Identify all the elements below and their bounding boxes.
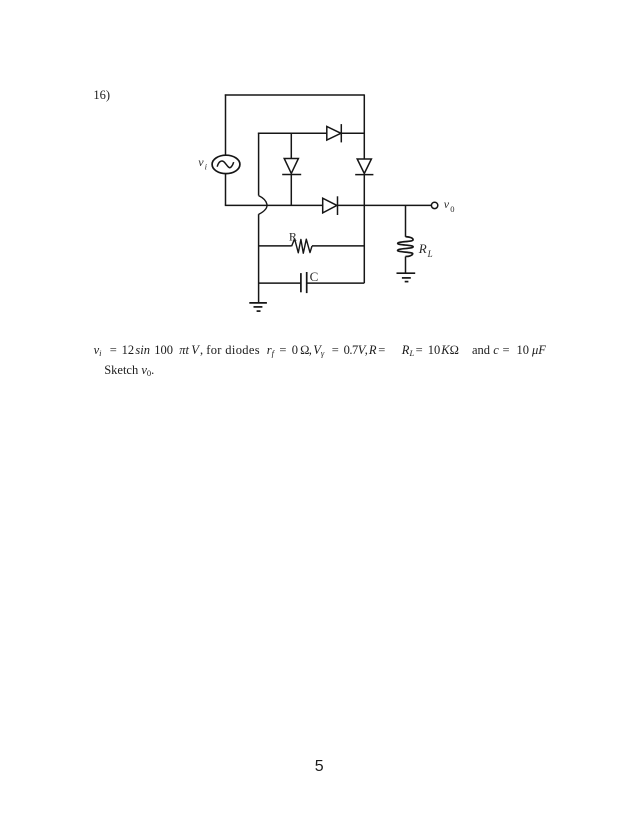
svg-text:i: i — [205, 162, 208, 172]
svg-text:R: R — [418, 241, 427, 256]
wire below D2 to bottom rail — [290, 175, 292, 206]
label RL — [418, 241, 433, 259]
svg-text:0: 0 — [450, 204, 454, 214]
wire right vertical lower (D3 through bottom rail to C rail) — [363, 175, 365, 284]
label v0 — [444, 197, 455, 214]
wire bottom rail left segment — [225, 204, 323, 206]
source vi (AC source ellipse with sine) — [212, 155, 240, 173]
page number — [312, 758, 327, 776]
output terminal circle — [431, 202, 437, 208]
ground below RL — [397, 273, 416, 281]
wire R rail left — [259, 245, 292, 247]
resistor R (zigzag) — [292, 239, 312, 253]
wire top rail — [225, 94, 364, 96]
wire branch vertical from second rail with hop over bottom rail — [259, 133, 267, 303]
equation line 1 — [0, 343, 638, 359]
svg-text:v: v — [444, 197, 450, 211]
wire left vertical lower (source to bottom rail) — [225, 174, 227, 206]
label R — [289, 229, 297, 243]
diode D4 on bottom rail (pointing right) — [323, 196, 338, 215]
wire right vertical upper (top rail to D3) — [363, 94, 365, 159]
svg-text:L: L — [427, 249, 433, 259]
resistor RL (scribble coil) — [398, 237, 414, 257]
wire RL branch vertical upper — [405, 205, 407, 236]
wire R rail right — [312, 245, 364, 247]
svg-text:v: v — [198, 155, 204, 169]
svg-text:R: R — [289, 229, 297, 243]
wire C rail right — [307, 282, 365, 284]
diode D2 (pointing down, left branch) — [282, 159, 301, 175]
wire left vertical upper (top rail to source) — [225, 94, 227, 155]
wire RL to ground — [405, 257, 407, 274]
label vi — [198, 155, 207, 172]
problem number 16) — [93, 88, 110, 102]
capacitor C plates — [301, 272, 307, 293]
diode D1 on second rail (pointing right) — [327, 124, 342, 142]
label C — [310, 269, 319, 284]
svg-text:C: C — [310, 269, 319, 284]
ground below left vertical — [249, 303, 267, 311]
wire C rail left — [259, 282, 301, 284]
diode D3 (pointing down, right branch) — [355, 159, 373, 175]
equation line 2 — [104, 363, 154, 378]
wire left branch vertical (second rail to D2) — [290, 133, 292, 159]
wire second rail — [258, 132, 364, 134]
wire bottom rail right segment to output — [338, 204, 432, 206]
